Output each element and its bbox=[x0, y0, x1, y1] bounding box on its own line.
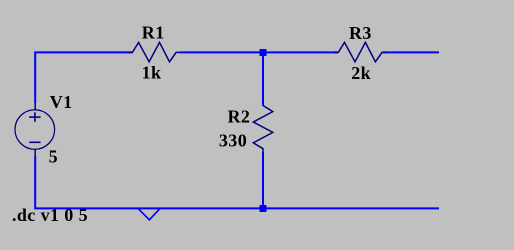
svg-text:1k: 1k bbox=[142, 62, 162, 82]
svg-text:R3: R3 bbox=[349, 23, 372, 43]
junction bottom node bbox=[260, 205, 267, 212]
label R3 bbox=[349, 23, 372, 43]
junction top node bbox=[260, 49, 267, 56]
label 330 bbox=[219, 131, 247, 151]
svg-text:5: 5 bbox=[49, 146, 58, 166]
wire top rail left: V1 top corner to R1 bbox=[35, 52, 132, 103]
wire middle vertical: junction to R2 and R2 to bottom junction bbox=[262, 52, 264, 208]
label V1 bbox=[50, 92, 73, 112]
resistor R2 bbox=[253, 104, 272, 152]
svg-text:.dc v1 0 5: .dc v1 0 5 bbox=[12, 205, 88, 225]
voltage source V1 circle bbox=[15, 103, 55, 157]
svg-text:V1: V1 bbox=[50, 92, 73, 112]
svg-text:2k: 2k bbox=[351, 63, 371, 83]
V1 minus sign bbox=[29, 141, 40, 143]
svg-text:330: 330 bbox=[219, 131, 247, 151]
wire top rail middle: R1 to junction to R3 bbox=[180, 51, 338, 53]
resistor R1 bbox=[128, 42, 180, 61]
spice directive .dc v1 0 5 bbox=[12, 205, 88, 225]
wire top rail right: R3 to open end bbox=[383, 51, 439, 53]
wire V1 bottom to bottom rail corner bbox=[35, 156, 439, 208]
svg-text:R1: R1 bbox=[142, 23, 165, 43]
label 5 bbox=[49, 146, 58, 166]
ground bbox=[138, 208, 160, 219]
resistor R3 bbox=[334, 42, 386, 61]
label R1 bbox=[142, 23, 165, 43]
label 2k bbox=[351, 63, 371, 83]
label R2 bbox=[228, 106, 251, 126]
svg-text:R2: R2 bbox=[228, 106, 251, 126]
V1 plus sign bbox=[29, 112, 40, 122]
label 1k bbox=[142, 62, 162, 82]
